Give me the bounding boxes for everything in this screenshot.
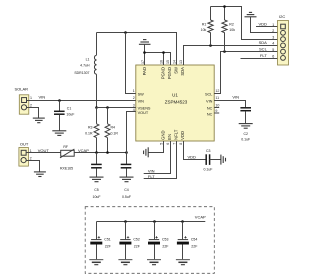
svg-text:C54: C54 xyxy=(191,237,197,241)
svg-text:EN: EN xyxy=(167,134,172,140)
node: SDA/R1 xyxy=(209,44,212,47)
ground (pin5, sideways left) xyxy=(144,147,149,157)
wire out pin2 to ground xyxy=(28,161,39,172)
connector J1 SOLAR xyxy=(15,86,33,114)
wire L1 top to SW rail xyxy=(96,33,98,56)
U1 top pin names (rotated) xyxy=(142,67,185,79)
node: rail/C54 xyxy=(181,220,184,223)
svg-text:1: 1 xyxy=(30,96,32,100)
svg-text:6: 6 xyxy=(272,54,274,58)
wire SW branch to chip pin1 xyxy=(126,33,136,94)
wire VIN: solar pin1 to chip pin2 xyxy=(29,100,136,102)
ground (C54) xyxy=(176,260,190,265)
svg-text:10k: 10k xyxy=(201,28,207,32)
inductor L1 4.7uH SDR1307 xyxy=(74,55,96,75)
svg-text:0.1R: 0.1R xyxy=(85,132,93,136)
ground (solar) xyxy=(33,118,45,123)
svg-text:VCAP: VCAP xyxy=(195,214,206,219)
svg-text:VDD: VDD xyxy=(188,155,197,160)
svg-text:VIN: VIN xyxy=(148,169,155,174)
wire VOUT chip pin4 to VCAP xyxy=(127,112,136,153)
svg-text:VIN: VIN xyxy=(138,99,145,103)
wire pull-up rail to I2C pin3 xyxy=(211,7,278,40)
svg-text:10uF: 10uF xyxy=(66,113,74,117)
capacitor C52 22F xyxy=(119,222,139,260)
svg-text:10uF: 10uF xyxy=(93,195,101,199)
svg-text:GND: GND xyxy=(161,130,166,139)
svg-text:C4: C4 xyxy=(124,188,129,192)
U1 top pin numbers (rotated) xyxy=(141,60,183,64)
svg-text:L1: L1 xyxy=(86,57,90,61)
svg-text:OUT: OUT xyxy=(20,142,29,147)
svg-text:4.7uH: 4.7uH xyxy=(80,64,90,68)
svg-text:U1: U1 xyxy=(172,92,178,97)
svg-text:C1: C1 xyxy=(67,106,72,110)
svg-text:C53: C53 xyxy=(162,237,168,241)
resistor R1 10k xyxy=(201,7,213,46)
wire chip pin8 VDD to C3 xyxy=(184,141,206,160)
svg-text:2: 2 xyxy=(30,104,32,108)
ground (I2C) flipped xyxy=(245,12,257,16)
svg-text:8: 8 xyxy=(179,143,183,145)
node: rail/C53 xyxy=(153,220,156,223)
svg-text:0.1R: 0.1R xyxy=(111,132,119,136)
svg-text:VIN: VIN xyxy=(39,95,46,100)
svg-text:22F: 22F xyxy=(134,244,140,248)
svg-text:7: 7 xyxy=(173,143,177,145)
resistor R2 10k xyxy=(222,7,235,52)
wire chip pin5 GND to side ground xyxy=(148,141,163,153)
svg-text:1: 1 xyxy=(272,23,274,27)
IC U1 ZSPM4523 body xyxy=(136,65,214,141)
node: rail/C52 xyxy=(124,220,127,223)
svg-text:SDA: SDA xyxy=(259,40,268,45)
svg-text:NC: NC xyxy=(207,112,213,116)
svg-text:3: 3 xyxy=(272,35,274,39)
svg-text:10: 10 xyxy=(215,103,219,107)
svg-text:SDA: SDA xyxy=(180,67,185,76)
wire solar pin2 to ground xyxy=(29,108,39,119)
svg-text:4: 4 xyxy=(272,42,274,46)
svg-text:0.1uF: 0.1uF xyxy=(204,168,213,172)
resistor R4 0.1R xyxy=(105,108,118,153)
svg-text:14: 14 xyxy=(173,60,177,64)
U1 right pin numbers xyxy=(214,89,219,113)
U1 bottom pin names (rotated) xyxy=(161,129,186,140)
svg-text:VIN: VIN xyxy=(232,95,239,100)
svg-text:C5: C5 xyxy=(94,188,99,192)
svg-text:16: 16 xyxy=(160,60,164,64)
ground (C51) xyxy=(89,260,103,265)
svg-text:5: 5 xyxy=(160,143,164,145)
node: rail/R2 xyxy=(223,5,226,8)
capacitor C54 22F xyxy=(177,222,197,260)
wire PGND: gnd stem and bus to pins 17,16,15 xyxy=(145,44,171,65)
wire VSENS line to chip pin3 xyxy=(97,107,136,109)
resistor R3 0.1R xyxy=(85,108,99,153)
svg-text:R3: R3 xyxy=(88,126,93,130)
svg-text:3: 3 xyxy=(133,103,135,107)
svg-text:R4: R4 xyxy=(111,126,116,130)
capacitor C5 10uF xyxy=(91,153,102,199)
svg-text:VIN: VIN xyxy=(206,99,213,103)
svg-text:C2: C2 xyxy=(243,132,248,136)
svg-text:SCL: SCL xyxy=(259,47,268,52)
node: PGND/pin16 xyxy=(162,51,165,54)
node: VCAP/C4/VOUT xyxy=(125,151,128,154)
ground (OUT) xyxy=(34,172,46,177)
svg-text:SW: SW xyxy=(138,92,145,96)
ground (C3, sideways right) xyxy=(221,155,226,165)
U1 right pin names xyxy=(205,92,213,116)
svg-text:22F: 22F xyxy=(191,244,197,248)
U1 bottom pin numbers (rotated) xyxy=(160,143,184,145)
U1 left pin names xyxy=(138,92,151,115)
svg-text:2: 2 xyxy=(30,156,32,160)
svg-text:VDD: VDD xyxy=(180,131,185,140)
capacitor C53 22F xyxy=(148,222,168,260)
wire VCAP: fuse to C4/VOUT corner xyxy=(74,152,126,154)
svg-text:PGND: PGND xyxy=(161,67,166,79)
node: VCAP/R4 xyxy=(106,151,109,154)
svg-text:0.1uF: 0.1uF xyxy=(241,138,250,142)
capacitor C4 0.5uF xyxy=(121,153,132,199)
wire C1 bottom xyxy=(59,115,61,131)
svg-text:VDD: VDD xyxy=(259,21,268,26)
wire SCL: I2C pin5 to chip pin12 xyxy=(214,52,277,94)
wire I2C pin2 to ground xyxy=(251,17,278,33)
svg-text:RF: RF xyxy=(63,145,68,149)
svg-text:SW: SW xyxy=(174,67,179,74)
node: VSENS/L1/R3 junction xyxy=(95,106,98,109)
svg-text:PGND: PGND xyxy=(167,67,172,79)
svg-text:RXE165: RXE165 xyxy=(60,167,73,171)
wire SW rail xyxy=(97,33,177,66)
svg-text:C51: C51 xyxy=(104,237,110,241)
svg-text:0.5uF: 0.5uF xyxy=(122,195,131,199)
svg-text:PAD: PAD xyxy=(142,67,147,75)
wire C3 to side ground xyxy=(210,159,221,161)
U1 left pin numbers xyxy=(131,89,136,112)
capacitor C2 0.1uF xyxy=(240,108,251,142)
ground (C52) xyxy=(118,260,132,265)
node: VIN/C1 junction xyxy=(58,99,61,102)
svg-text:2: 2 xyxy=(133,96,135,100)
svg-text:5: 5 xyxy=(272,48,274,52)
svg-text:10k: 10k xyxy=(229,28,235,32)
connector J3 I2C xyxy=(272,14,288,65)
wire C1 top xyxy=(59,101,61,111)
svg-text:12: 12 xyxy=(215,89,219,93)
svg-text:11: 11 xyxy=(215,96,219,100)
svg-text:VSENS: VSENS xyxy=(138,107,151,111)
svg-text:FLT: FLT xyxy=(260,53,267,58)
svg-text:C52: C52 xyxy=(133,237,139,241)
capacitor C1 xyxy=(54,106,74,116)
node: VSENS/R4 junction xyxy=(106,106,109,109)
ground (C2) xyxy=(239,124,253,129)
svg-text:1: 1 xyxy=(133,89,135,93)
svg-text:NC: NC xyxy=(207,107,213,111)
ground (C4) xyxy=(120,177,134,182)
svg-text:R2: R2 xyxy=(229,23,234,27)
svg-text:C3: C3 xyxy=(206,149,211,153)
node: VCAP/R3/C5 xyxy=(95,151,98,154)
svg-text:I2C: I2C xyxy=(279,14,285,19)
capacitor C3 0.1uF (horizontal) xyxy=(204,149,213,171)
wire SDA: chip pin13 to I2C pin4 xyxy=(184,46,278,66)
wire VOUT: out pin1 to fuse xyxy=(28,152,60,154)
net label VDD + wire I2C pin1 stub xyxy=(256,21,278,26)
wire chip pin6 EN to VIN flag xyxy=(144,141,171,174)
ground (C1) xyxy=(52,131,66,136)
node: SW rail / pin1 branch xyxy=(124,31,127,34)
ground (PGND, above chip) flipped xyxy=(139,40,151,45)
node: PGND/pin17 xyxy=(143,51,146,54)
wire L1 bottom to VSENS node xyxy=(96,74,98,107)
svg-text:SDR1307: SDR1307 xyxy=(74,71,89,75)
svg-text:ZSPM4523: ZSPM4523 xyxy=(165,99,188,104)
svg-text:2: 2 xyxy=(272,29,274,33)
ground (C53) xyxy=(147,260,161,265)
svg-text:SCL: SCL xyxy=(205,92,212,96)
ground (C5) xyxy=(90,177,104,182)
svg-text:15: 15 xyxy=(166,60,170,64)
capacitor C51 22F xyxy=(90,222,110,260)
svg-text:R1: R1 xyxy=(202,23,207,27)
svg-text:13: 13 xyxy=(179,60,183,64)
wire chip pin11 VIN to C2 xyxy=(214,101,245,108)
svg-text:NFLT: NFLT xyxy=(174,129,179,140)
svg-text:FLT: FLT xyxy=(148,174,155,179)
supercap bank dashed box xyxy=(85,207,214,274)
wire VCAP bank rail xyxy=(97,221,206,223)
connector J2 OUT xyxy=(19,142,32,166)
fuse RF RXE165 xyxy=(60,145,74,171)
svg-text:SOLAR: SOLAR xyxy=(15,86,29,91)
svg-text:22F: 22F xyxy=(105,244,111,248)
wire FLT: I2C pin6 stub xyxy=(241,58,278,60)
wire chip pin7 NFLT to FLT flag xyxy=(144,141,177,179)
svg-text:22F: 22F xyxy=(162,244,168,248)
node: SCL/R2 xyxy=(223,50,226,53)
svg-text:6: 6 xyxy=(166,143,170,145)
svg-text:VOUT: VOUT xyxy=(138,111,149,115)
